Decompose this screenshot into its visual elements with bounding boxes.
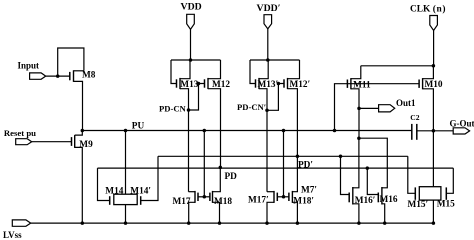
node M7' label [301, 186, 317, 196]
wire M12 drain to VDD rail [208, 60, 221, 79]
node PU M17 junction [203, 129, 207, 133]
wire M10 drain to CLK [423, 66, 434, 79]
node PU gate feed junction [333, 129, 337, 133]
svg-text:M17′: M17′ [248, 195, 269, 205]
output terminal Out1 [379, 98, 416, 112]
node M14 LVss junction [124, 221, 128, 225]
node PD-CN junction [187, 108, 191, 112]
node PU M14 junction [124, 129, 128, 133]
wire M12' drain to VDD' rail [288, 60, 300, 79]
wire M9 source to LVss [75, 147, 83, 223]
node M9 LVss junction [81, 221, 85, 225]
wire M16' drain to Out1 net [353, 138, 359, 188]
wire PD' to M14' gate [141, 156, 158, 200]
input terminal Input [18, 61, 46, 80]
svg-text:Out1: Out1 [396, 98, 416, 108]
svg-text:M15′: M15′ [408, 200, 429, 210]
transistor M17' [248, 191, 277, 205]
wire PU bus [82, 130, 412, 132]
wire VDD to rail [190, 29, 192, 60]
node PD-CN' junction [265, 109, 269, 113]
wire PD-CN to M12 gate [189, 84, 205, 111]
wire M17 drain lead [189, 191, 196, 193]
node M17 M18 gate junction [203, 195, 207, 199]
wire Out1 tap [359, 107, 379, 109]
wire M12' source to PD' [288, 89, 298, 157]
node M12 gate junction [197, 82, 201, 86]
transistor M16 [378, 187, 398, 205]
node PD-CN' label [237, 102, 266, 112]
svg-text:M7′: M7′ [301, 186, 317, 196]
svg-text:Reset pu: Reset pu [4, 128, 36, 138]
wire PU to M17' M18' gates [283, 131, 285, 197]
transistor M10 [419, 78, 443, 90]
svg-text:VDD: VDD [181, 2, 202, 13]
svg-text:M8: M8 [82, 71, 96, 81]
wire VDD' to rail [267, 29, 269, 60]
wire M9 drain to PU node [75, 131, 83, 136]
wire M12 source to PD [208, 89, 221, 168]
svg-text:CLK: CLK [410, 5, 431, 15]
shared channel box M15' M15 [419, 187, 441, 200]
wire M18 source to LVss [213, 202, 220, 223]
wire M18' source to LVss [292, 202, 297, 223]
node VDD' rail junction [266, 58, 270, 62]
wire Input to M8 gate [46, 75, 70, 77]
node VDD rail junction [189, 58, 193, 62]
transistor M14 [105, 186, 123, 205]
node M17' M18' gate junction [282, 195, 286, 199]
node Out1 net junction [357, 136, 361, 140]
wire M11 drain to CLK [351, 66, 361, 79]
wire CLK down [433, 31, 435, 66]
node PD' label [298, 161, 313, 171]
wire PU to gates of M11 M10 [335, 84, 420, 131]
svg-text:Input: Input [18, 61, 40, 71]
transistor M12' [284, 78, 310, 90]
svg-text:G-Out: G-Out [450, 119, 474, 129]
node PD-CN label [159, 104, 187, 114]
node M8 gate junction [56, 74, 60, 78]
wire M15 box to LVss [432, 200, 434, 223]
svg-text:PD-CN: PD-CN [159, 104, 187, 114]
wire M13' source to PD-CN' [259, 89, 267, 192]
wire M8 gate-drain loop [58, 48, 84, 75]
svg-text:LVss: LVss [3, 230, 22, 240]
VDD power terminal [181, 2, 202, 30]
svg-text:PD-CN′: PD-CN′ [237, 102, 266, 112]
node PU left junction [81, 129, 85, 133]
transistor M17 [173, 191, 199, 207]
wire M17' drain lead [267, 191, 274, 193]
wire C2 to G-Out node [417, 130, 453, 132]
wire VDD rail [171, 59, 221, 61]
node PD M16 junction [366, 166, 370, 170]
svg-text:PD′: PD′ [298, 161, 313, 171]
transistor M13' [256, 78, 279, 90]
wire M13 gate feed [171, 60, 177, 84]
wire PU to M17 M18 gates [203, 131, 205, 197]
wire M16 source to LVss [382, 204, 385, 223]
wire M11 source to Out1 [351, 89, 359, 138]
wire G-Out to M15 box [432, 131, 434, 187]
node G-Out junction [432, 129, 436, 133]
node M17' LVss junction [265, 221, 269, 225]
wire Out1 net to M16 drain [359, 138, 387, 188]
node PU label [132, 122, 145, 132]
capacitor C2 label [410, 113, 419, 122]
svg-text:C2: C2 [410, 113, 419, 122]
transistor M9 [72, 135, 94, 150]
wire M18' drain to PD' [292, 156, 297, 191]
node PD label [225, 172, 238, 182]
node M18' LVss junction [296, 221, 300, 225]
wire M17 M18 gate link [198, 196, 210, 198]
node PD' M18' junction [296, 155, 300, 159]
transistor M14' [130, 186, 151, 205]
wire M13' gate feed [250, 60, 256, 84]
wire VDD' rail [250, 59, 300, 61]
transistor M8 [70, 70, 96, 82]
wire Reset pu to M9 gate [32, 141, 72, 143]
node PD' M16' junction [339, 155, 343, 159]
wire PD to M15 gate [446, 168, 453, 193]
wire M13 drain to VDD [180, 60, 190, 79]
svg-text:PD: PD [225, 172, 238, 182]
wire M8 source to PU [74, 81, 83, 130]
transistor M15 [437, 187, 455, 209]
wire PU to M14 box [125, 131, 127, 195]
wire PD-CN' to M12' gate [267, 84, 284, 111]
shared channel box M14 M14' [114, 194, 137, 204]
transistor M13 [177, 78, 199, 90]
wire PD to M14 gate [98, 168, 110, 200]
capacitor C2 [412, 124, 417, 140]
node M18 LVss junction [218, 221, 222, 225]
wire LVss rail [31, 222, 434, 224]
node M12' gate junction [277, 82, 281, 86]
input terminal Reset pu [4, 128, 36, 145]
wire M8 drain lead [74, 70, 84, 72]
transistor M15' [408, 187, 429, 210]
transistor M18 [210, 191, 233, 207]
output terminal G-Out [450, 119, 474, 135]
wire M17 source to LVss [189, 202, 195, 223]
transistor M11 [347, 78, 371, 90]
wire M13 source to PD-CN [180, 89, 189, 192]
VDD' power terminal [257, 3, 281, 29]
wire PD bus [98, 167, 454, 169]
wire M18 drain to PD [213, 168, 221, 192]
node M15 LVss junction [432, 221, 436, 225]
node M16 LVss junction [383, 221, 387, 225]
wire PD to M16 gate [367, 168, 378, 194]
svg-text:M15: M15 [437, 200, 455, 210]
wire PD' to M15' gate [408, 156, 416, 193]
svg-text:M9: M9 [79, 140, 93, 150]
wire M17' M18' gate link [277, 196, 289, 198]
wire M13' drain to VDD' [259, 60, 268, 79]
wire PD' to M16' gate [341, 156, 350, 194]
svg-text:VDD′: VDD′ [257, 3, 281, 14]
svg-text:(n): (n) [433, 4, 447, 15]
CLK (n) clock terminal [410, 4, 446, 31]
wire M16' source to LVss [353, 204, 359, 223]
wire CLK horizontal [361, 65, 434, 67]
wire M17' source to LVss [267, 202, 274, 223]
node M16' LVss junction [357, 221, 361, 225]
transistor M16' [349, 187, 375, 206]
wire M10 source to G-Out [423, 89, 434, 131]
transistor M12 [205, 78, 231, 90]
wire PD' bus [158, 155, 408, 157]
node Out1 junction [357, 107, 361, 111]
node M17 LVss junction [187, 221, 191, 225]
node CLK junction [432, 64, 436, 68]
node PD M18 junction [219, 166, 223, 170]
transistor M18' [289, 191, 314, 207]
node PU M17' junction [282, 129, 286, 133]
terminal LVss [3, 220, 31, 240]
wire M14 box to LVss [125, 205, 127, 224]
